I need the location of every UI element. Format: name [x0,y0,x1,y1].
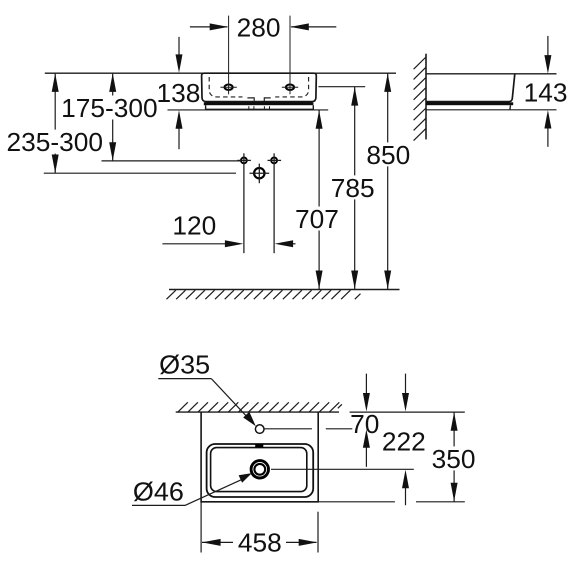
svg-text:143: 143 [524,77,568,107]
plan bowl outer rounded rect [207,444,314,497]
wall line (side view) [425,54,427,140]
svg-text:Ø46: Ø46 [133,476,184,506]
dimension 707 [318,110,320,289]
dimension 350 [453,412,455,501]
faucet hole right (ellipse with crosshair) [286,85,294,90]
plan outer rectangle [201,412,318,502]
dashed inner bowl left [209,77,242,97]
dimension 850 [387,73,389,289]
bottom plate (side) [509,105,512,110]
wall line (plan) [176,411,339,413]
dimension 785 [354,87,356,289]
svg-text:Ø35: Ø35 [159,350,210,380]
svg-text:175-300: 175-300 [61,93,158,123]
svg-text:707: 707 [295,204,339,234]
svg-text:785: 785 [331,173,375,203]
basin top reference line (side) [426,73,557,75]
thick base bar (front) [204,102,314,105]
bottom plate (front) [205,105,207,109]
reference line 235-300 [44,172,236,174]
drain plan (Ø46 double circle) [251,461,268,478]
dimension 70 [365,374,367,396]
wall hatching (plan) [178,402,188,412]
drain hole front view [254,168,264,178]
dimension 280 [190,26,228,28]
mounting hole 2 [271,158,277,164]
wall reference line extension (plan) [350,411,465,413]
bowl center recess [247,98,270,102]
dimension 120 [162,243,227,245]
plate underside reference line (side) [426,109,557,111]
svg-text:120: 120 [172,211,216,241]
thick base bar (side) [426,102,513,105]
basin side profile [426,74,515,102]
faucet hole reference line [264,428,312,430]
svg-text:458: 458 [238,528,282,558]
wall hatching (side view) [414,57,426,69]
wall reference line (front view) [45,72,396,74]
dimension 235-300 [54,73,56,173]
svg-text:222: 222 [382,427,426,457]
reference line 175-300 [102,160,241,162]
faucet hole left (ellipse with crosshair) [225,85,233,90]
dimension 138 [178,37,180,57]
svg-text:235-300: 235-300 [6,127,103,157]
svg-text:70: 70 [350,409,379,439]
reference line 785 [318,86,365,88]
dimension 458 [200,502,202,553]
svg-text:350: 350 [432,444,476,474]
svg-text:850: 850 [366,140,410,170]
mounting hole 1 [241,158,247,164]
faucet hole plan (Ø35) [255,425,264,434]
svg-text:138: 138 [156,78,200,108]
drain reference line [271,468,414,470]
svg-text:280: 280 [237,12,281,42]
dashed inner bowl right [275,77,308,97]
dimension 175-300 [112,73,114,161]
dimension 222 [405,374,407,396]
floor hatching [167,290,176,299]
plan bottom reference line [318,501,395,503]
washbasin front outline [202,73,317,101]
dimension 143 [547,36,549,56]
plan bowl inner rounded rect [211,448,307,492]
overflow tick [255,444,263,447]
floor line [169,289,400,291]
plate underside reference line [168,109,329,111]
